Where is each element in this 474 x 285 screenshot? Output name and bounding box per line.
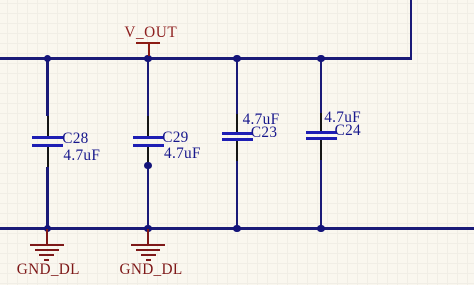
wire right vertical to top edge (410, 0, 413, 60)
designator C23 (251, 125, 277, 140)
value 4.7uF of C24 (324, 110, 361, 125)
junction bottom rail at C24 (317, 225, 325, 233)
junction top rail at C28 (44, 55, 52, 63)
net label V_OUT (124, 25, 177, 40)
wire C23 top drop (236, 58, 239, 114)
wire C29 top drop (147, 58, 150, 116)
junction bottom rail at C29 (144, 225, 152, 233)
wire C23 bottom drop (236, 161, 239, 228)
wire C24 top drop (320, 58, 323, 113)
value 4.7uF of C28 (63, 148, 100, 163)
junction top rail at C24 (317, 55, 325, 63)
junction top rail at C23 (233, 55, 241, 63)
designator C29 (162, 130, 188, 145)
capacitor C23 (236, 114, 238, 132)
wire C28 top drop (46, 58, 49, 116)
ground symbol GND_DL under C29 (147, 229, 149, 244)
wire C28 bottom drop (46, 167, 49, 228)
wire C24 bottom drop (320, 160, 323, 228)
value 4.7uF of C29 (164, 146, 201, 161)
junction bottom rail at C28 (44, 225, 52, 233)
junction below C29 (144, 162, 152, 170)
wire top rail V_OUT net (0, 57, 412, 60)
designator C28 (62, 131, 88, 146)
value 4.7uF of C23 (243, 112, 280, 127)
power port V_OUT bar (136, 42, 160, 44)
capacitor C24 (320, 113, 322, 131)
junction top rail at C29 (144, 55, 152, 63)
net label GND_DL right (120, 262, 183, 277)
wire C29 bottom drop (147, 167, 150, 228)
net label GND_DL left (17, 262, 80, 277)
wire bottom rail GND_DL net (0, 227, 474, 230)
capacitor C28 (47, 116, 49, 137)
designator C24 (335, 123, 361, 138)
junction bottom rail at C23 (233, 225, 241, 233)
capacitor C29 (147, 116, 149, 137)
power port V_OUT stub (148, 44, 150, 56)
ground symbol GND_DL under C28 (46, 229, 48, 244)
